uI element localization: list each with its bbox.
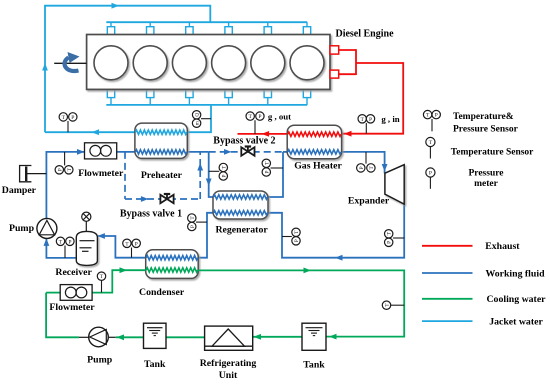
svg-text:Cooling water: Cooling water: [486, 294, 546, 305]
svg-text:Preheater: Preheater: [141, 170, 183, 181]
svg-text:P: P: [359, 166, 365, 169]
svg-text:T: T: [385, 303, 391, 307]
svg-text:Bypass valve 1: Bypass valve 1: [120, 208, 182, 219]
svg-text:Pressure: Pressure: [468, 169, 503, 179]
svg-text:T: T: [426, 113, 430, 119]
svg-text:Pressure Sensor: Pressure Sensor: [453, 125, 519, 135]
svg-text:Receiver: Receiver: [55, 267, 92, 278]
svg-text:T: T: [360, 117, 364, 123]
svg-text:P: P: [429, 171, 432, 177]
svg-text:Condenser: Condenser: [139, 287, 185, 298]
svg-text:P: P: [71, 115, 74, 121]
svg-text:T: T: [429, 140, 433, 146]
svg-text:Q: Q: [195, 113, 201, 117]
svg-text:Temperature Sensor: Temperature Sensor: [451, 147, 534, 157]
svg-text:T: T: [67, 168, 73, 172]
svg-text:P: P: [264, 170, 270, 173]
svg-text:Diesel Engine: Diesel Engine: [335, 29, 394, 40]
svg-text:T: T: [221, 165, 227, 169]
svg-text:Exhaust: Exhaust: [485, 241, 520, 252]
svg-text:T: T: [294, 230, 300, 234]
svg-text:P: P: [387, 241, 393, 244]
svg-text:T: T: [190, 216, 196, 220]
svg-text:P: P: [435, 113, 438, 119]
svg-text:T: T: [62, 115, 66, 121]
svg-text:g , out: g , out: [268, 112, 291, 122]
svg-text:Damper: Damper: [2, 185, 37, 196]
svg-text:T: T: [125, 241, 129, 247]
svg-text:g , in: g , in: [381, 114, 399, 124]
svg-text:P: P: [369, 117, 372, 123]
svg-text:T: T: [59, 239, 63, 245]
svg-text:T: T: [100, 274, 104, 280]
svg-text:meter: meter: [474, 179, 499, 189]
svg-text:T: T: [387, 232, 393, 236]
svg-text:Bypass valve 2: Bypass valve 2: [213, 136, 275, 147]
svg-text:Working fluid: Working fluid: [485, 268, 545, 279]
svg-text:Unit: Unit: [219, 370, 238, 381]
svg-text:P: P: [190, 225, 196, 228]
svg-text:P: P: [294, 239, 300, 242]
svg-text:Jacket water: Jacket water: [489, 316, 543, 327]
svg-text:Expander: Expander: [348, 196, 390, 207]
svg-text:Flowmeter: Flowmeter: [78, 168, 124, 179]
svg-text:P: P: [221, 174, 227, 177]
svg-text:P: P: [258, 114, 261, 120]
svg-text:T: T: [248, 114, 252, 120]
svg-text:T: T: [369, 166, 375, 170]
svg-text:m: m: [195, 121, 201, 125]
svg-text:P: P: [68, 239, 71, 245]
svg-text:Gas Heater: Gas Heater: [294, 161, 342, 172]
svg-text:Temperature&: Temperature&: [453, 112, 514, 122]
svg-text:Regenerator: Regenerator: [215, 225, 268, 236]
svg-text:Tank: Tank: [303, 359, 325, 370]
svg-text:Pump: Pump: [87, 355, 113, 366]
svg-text:Flowmeter: Flowmeter: [49, 302, 95, 313]
svg-text:T: T: [264, 161, 270, 165]
svg-text:P: P: [135, 241, 138, 247]
svg-text:Pump: Pump: [9, 223, 35, 234]
svg-text:Tank: Tank: [144, 359, 166, 370]
svg-text:P: P: [57, 168, 63, 171]
svg-text:Refrigerating: Refrigerating: [200, 358, 257, 369]
